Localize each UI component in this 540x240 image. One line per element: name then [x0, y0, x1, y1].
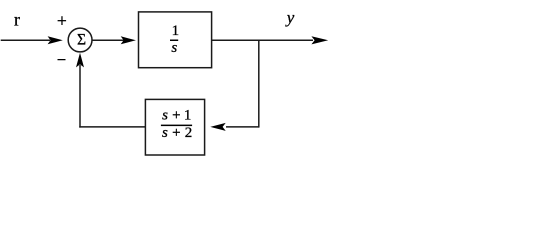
svg-text:1: 1: [172, 23, 180, 39]
svg-text:1: 1: [184, 107, 192, 123]
wire input r to summer: [1, 39, 50, 41]
arrowhead into summer bottom: [76, 53, 84, 68]
wire block U1 to output y: [212, 39, 313, 41]
arrowhead into summer: [48, 36, 63, 44]
svg-text:2: 2: [185, 125, 193, 141]
svg-text:y: y: [285, 8, 295, 27]
value label 1/s fraction bar: [170, 40, 178, 42]
arrowhead into block U1: [121, 36, 136, 44]
block U1 integrator box: [139, 12, 212, 68]
wire branch node down: [258, 40, 260, 128]
wire summer to block U1: [92, 39, 124, 41]
arrowhead into feedback block: [210, 123, 225, 131]
wire feedback block to summer leg: [79, 126, 145, 128]
minus sign at summing junction: [58, 59, 66, 60]
svg-text:r: r: [14, 10, 20, 30]
svg-text:s: s: [171, 40, 177, 56]
svg-text:+: +: [172, 107, 180, 123]
value label (s+2) denominator: [162, 125, 192, 141]
arrowhead output y: [311, 36, 328, 44]
svg-text:+: +: [172, 125, 180, 141]
block U2 feedback box: [145, 99, 204, 155]
value label fraction bar: [161, 125, 192, 127]
svg-text:s: s: [162, 107, 168, 123]
svg-text:Σ: Σ: [77, 32, 86, 49]
wire vertical up to summer: [79, 65, 81, 128]
value label (s+1) numerator: [162, 107, 191, 123]
svg-text:s: s: [162, 125, 168, 141]
plus sign at summing junction: [58, 16, 67, 25]
summing junction circle: [68, 28, 92, 52]
wire branch to feedback block: [226, 126, 259, 128]
